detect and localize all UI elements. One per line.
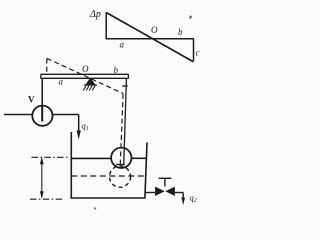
svg-text:O: O [151, 25, 158, 35]
svg-text:Δp: Δp [89, 9, 101, 20]
svg-text:q2: q2 [190, 193, 197, 205]
svg-text:a: a [120, 40, 125, 50]
svg-text:O: O [82, 64, 89, 74]
svg-text:a: a [59, 77, 64, 87]
svg-text:c: c [196, 48, 200, 58]
svg-text:V: V [28, 95, 35, 105]
svg-text:b: b [178, 27, 183, 37]
svg-text:q1: q1 [82, 121, 89, 133]
svg-text:b: b [114, 65, 119, 75]
